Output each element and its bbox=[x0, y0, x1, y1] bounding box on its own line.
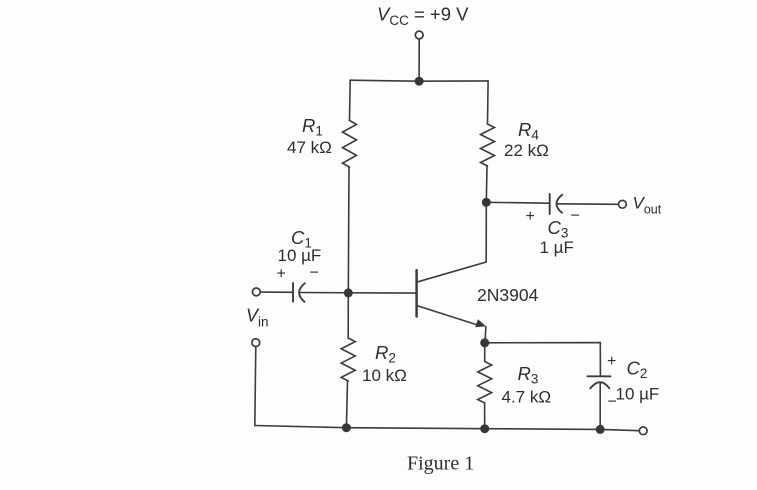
node base bbox=[344, 288, 353, 297]
terminal Vin lower bbox=[252, 339, 260, 347]
node R3 bottom bbox=[480, 424, 489, 433]
svg-text:R2: R2 bbox=[375, 342, 396, 366]
node R2 bottom bbox=[342, 423, 351, 432]
wire Vin lower stem bbox=[255, 347, 256, 426]
transistor Q1 emitter arrowhead bbox=[475, 319, 486, 327]
node VCC rail junction bbox=[415, 77, 424, 86]
transistor Q1 base bar bbox=[415, 270, 418, 316]
svg-text:−: − bbox=[608, 394, 617, 411]
wire top rail bbox=[350, 80, 488, 81]
capacitor C1 curved plate bbox=[299, 283, 305, 302]
svg-text:+: + bbox=[607, 353, 616, 370]
svg-text:4.7 kΩ: 4.7 kΩ bbox=[502, 387, 552, 406]
capacitor C3 curved plate bbox=[556, 195, 562, 213]
wire VCC stem bbox=[418, 39, 420, 81]
wire R2 bottom to bottom rail bbox=[346, 381, 347, 428]
svg-text:C2: C2 bbox=[627, 358, 648, 382]
wire bottom rail bbox=[255, 426, 640, 431]
terminal Vout bbox=[619, 200, 627, 208]
wire collector node down and diagonal to transistor bbox=[418, 202, 487, 281]
terminal Vin upper bbox=[252, 288, 260, 296]
svg-text:+: + bbox=[277, 266, 286, 283]
capacitor C3 straight plate bbox=[549, 194, 551, 214]
transistor Q1 emitter diagonal bbox=[418, 306, 480, 326]
wire Vin to C1 bbox=[260, 291, 293, 293]
svg-text:R4: R4 bbox=[518, 119, 539, 143]
svg-text:VCC = +9 V: VCC = +9 V bbox=[377, 4, 469, 29]
resistor R1 bbox=[343, 121, 357, 168]
svg-text:−: − bbox=[310, 265, 319, 282]
capacitor C1 straight plate bbox=[292, 283, 294, 302]
wire R3 bottom to bottom rail bbox=[484, 403, 486, 429]
wire C2 bottom to bottom rail bbox=[599, 383, 601, 430]
node emitter bbox=[480, 338, 489, 347]
terminal VCC bbox=[415, 31, 423, 39]
wire collector node to C3 bbox=[486, 201, 549, 204]
resistor R4 bbox=[481, 124, 495, 166]
wire C1 to base bar bbox=[299, 292, 416, 295]
resistor R3 bbox=[478, 362, 492, 404]
wire R4 bottom to collector node bbox=[485, 166, 488, 202]
svg-text:2N3904: 2N3904 bbox=[477, 285, 539, 305]
svg-text:Vin: Vin bbox=[246, 306, 269, 330]
svg-text:C3: C3 bbox=[548, 217, 569, 241]
svg-text:10 kΩ: 10 kΩ bbox=[362, 366, 407, 385]
wire C3 to Vout terminal bbox=[557, 203, 619, 206]
wire emitter node to R3 top bbox=[484, 343, 486, 362]
terminal bottom right bbox=[639, 427, 647, 435]
svg-text:−: − bbox=[571, 208, 580, 225]
wire right branch upper bbox=[487, 81, 490, 124]
wire left branch upper bbox=[349, 80, 352, 120]
capacitor C2 straight plate bbox=[588, 375, 611, 377]
svg-text:47 kΩ: 47 kΩ bbox=[287, 138, 332, 157]
svg-text:1 µF: 1 µF bbox=[540, 238, 574, 257]
svg-text:+: + bbox=[526, 208, 535, 225]
node collector bbox=[482, 198, 491, 207]
svg-text:R3: R3 bbox=[518, 363, 539, 387]
capacitor C2 curved plate bbox=[590, 382, 609, 388]
wire R1 bottom to base node to R2 top bbox=[347, 167, 350, 338]
svg-text:10 µF: 10 µF bbox=[616, 384, 660, 403]
wire emitter bend to emitter node bbox=[484, 327, 487, 343]
node C2 bottom bbox=[596, 425, 605, 434]
svg-text:Vout: Vout bbox=[633, 193, 662, 216]
svg-text:22 kΩ: 22 kΩ bbox=[504, 141, 549, 160]
wire emitter node to C2 top bbox=[485, 343, 601, 377]
svg-text:R1: R1 bbox=[302, 115, 323, 139]
svg-text:Figure 1: Figure 1 bbox=[407, 453, 474, 475]
svg-text:10 µF: 10 µF bbox=[278, 246, 322, 265]
resistor R2 bbox=[341, 338, 355, 381]
